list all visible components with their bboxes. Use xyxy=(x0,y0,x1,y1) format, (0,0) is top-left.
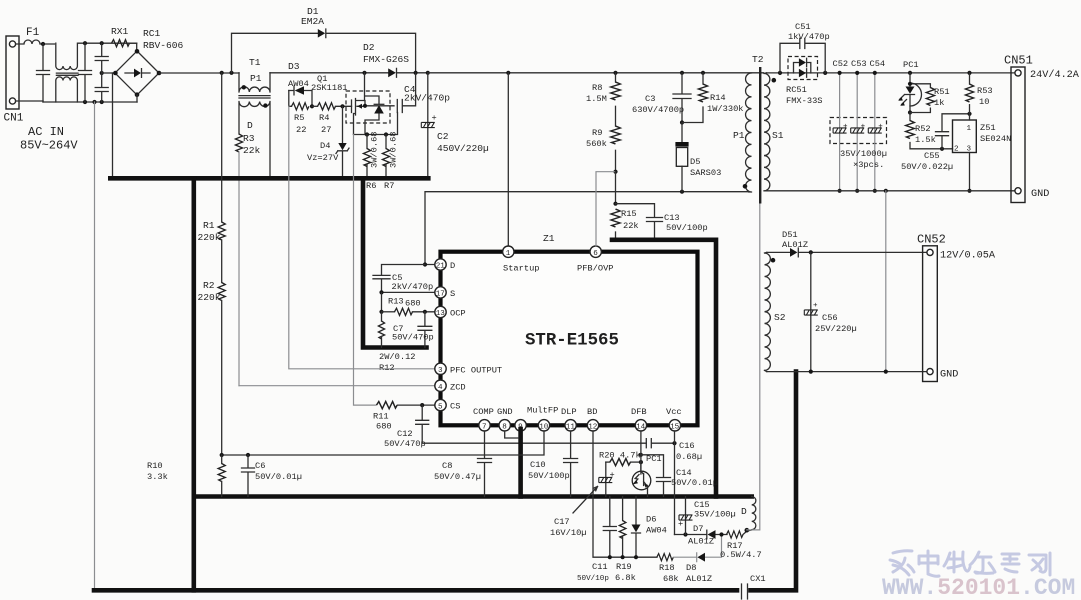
svg-text:6: 6 xyxy=(593,250,598,258)
svg-text:50V/10p: 50V/10p xyxy=(577,575,609,583)
svg-text:16V/10µ: 16V/10µ xyxy=(550,528,587,538)
pin 11 DLP xyxy=(561,407,577,432)
pin 4 ZCD xyxy=(435,380,466,392)
svg-text:1: 1 xyxy=(967,125,972,133)
signal GND bus (thick, lower) xyxy=(194,494,752,499)
svg-text:PC1: PC1 xyxy=(646,454,662,464)
wire aux winding to T2 core tie xyxy=(747,204,760,530)
svg-text:C54: C54 xyxy=(870,59,886,69)
Q1 drain vertical xyxy=(365,73,380,135)
svg-text:2: 2 xyxy=(954,146,959,154)
IC Z1 STR-E1565 xyxy=(441,252,698,426)
svg-text:50V/100p: 50V/100p xyxy=(528,471,570,481)
svg-text:50V/470p: 50V/470p xyxy=(384,439,426,449)
svg-text:11: 11 xyxy=(566,424,576,432)
svg-text:T1: T1 xyxy=(249,57,261,68)
svg-text:STR-E1565: STR-E1565 xyxy=(525,332,619,351)
svg-text:0.5W/4.7: 0.5W/4.7 xyxy=(720,550,762,560)
svg-text:17: 17 xyxy=(436,291,445,299)
svg-text:RBV-606: RBV-606 xyxy=(143,40,184,51)
svg-text:C11: C11 xyxy=(592,562,608,572)
svg-text:SE024N: SE024N xyxy=(980,134,1011,144)
common-mode choke L1 xyxy=(56,43,78,69)
svg-text:+: + xyxy=(610,470,615,480)
T1 P1 winding xyxy=(239,73,270,92)
svg-text:50V/470p: 50V/470p xyxy=(392,333,434,343)
pin 6 PFB/OVP xyxy=(577,246,614,274)
T1 D winding xyxy=(239,102,270,179)
svg-text:3: 3 xyxy=(438,367,443,375)
svg-text:22k: 22k xyxy=(623,221,639,231)
svg-text:C14: C14 xyxy=(676,468,692,478)
svg-text:+: + xyxy=(432,113,437,123)
svg-text:1kV/470p: 1kV/470p xyxy=(788,32,830,42)
svg-text:1k: 1k xyxy=(934,98,944,108)
pin 21 D xyxy=(435,259,455,271)
svg-text:CS: CS xyxy=(450,402,460,412)
svg-text:S1: S1 xyxy=(772,130,784,141)
wire R3 to ZCD column xyxy=(238,152,240,386)
svg-text:R8: R8 xyxy=(592,83,602,93)
svg-text:+: + xyxy=(813,302,818,310)
svg-text:D8: D8 xyxy=(686,563,696,573)
svg-text:560k: 560k xyxy=(586,139,607,149)
svg-text:P1: P1 xyxy=(250,73,262,84)
wire 12V GND rail xyxy=(767,371,927,373)
wire bridge mid to left vertex xyxy=(102,72,116,74)
pin 10 MultFP xyxy=(527,406,558,432)
svg-text:BD: BD xyxy=(587,407,597,417)
wire left vertex down to primary gnd bus xyxy=(112,73,114,178)
svg-text:FMX-G26S: FMX-G26S xyxy=(363,54,409,65)
wire BD pin 12 drop xyxy=(593,431,657,557)
svg-text:R53: R53 xyxy=(977,86,993,96)
T1 core xyxy=(239,96,270,98)
wire DFB pin 14 drop xyxy=(640,431,642,474)
svg-text:PC1: PC1 xyxy=(903,60,919,70)
pin 1 Startup xyxy=(503,246,540,274)
svg-text:50V/0.01µ: 50V/0.01µ xyxy=(671,478,718,488)
wire ZCD line xyxy=(239,385,435,387)
svg-text:C13: C13 xyxy=(664,213,680,223)
wire 24V rail xyxy=(767,72,1015,74)
svg-text:3W/0.68: 3W/0.68 xyxy=(370,132,380,169)
svg-text:R14: R14 xyxy=(710,93,726,103)
svg-text:R4: R4 xyxy=(319,113,329,123)
svg-text:EM2A: EM2A xyxy=(301,16,324,27)
svg-text:R7: R7 xyxy=(384,181,394,191)
svg-text:CN51: CN51 xyxy=(1004,54,1033,68)
svg-text:C6: C6 xyxy=(255,461,265,471)
svg-text:35V/1000µ: 35V/1000µ xyxy=(840,149,887,159)
thick vertical left gnd link xyxy=(192,178,197,590)
svg-text:680: 680 xyxy=(405,299,421,309)
svg-text:D6: D6 xyxy=(646,515,656,525)
capacitor C17 16V/10u electrolytic xyxy=(605,462,607,496)
pin 15 Vcc xyxy=(666,407,682,432)
svg-text:GND: GND xyxy=(940,370,958,381)
svg-text:MultFP: MultFP xyxy=(527,406,558,416)
capacitor X-cap 2 xyxy=(83,41,87,45)
wire CS line xyxy=(354,135,377,406)
svg-text:35V/100µ: 35V/100µ xyxy=(694,510,736,520)
svg-text:C8: C8 xyxy=(442,461,452,471)
svg-text:S: S xyxy=(450,289,455,299)
wire 24V GND rail xyxy=(767,190,1015,192)
svg-text:T2: T2 xyxy=(752,54,764,65)
pin 5 CS xyxy=(435,399,461,411)
pin 7 COMP xyxy=(473,407,494,432)
wire MultFP / divider line xyxy=(222,431,544,455)
svg-text:CN52: CN52 xyxy=(917,233,946,247)
svg-text:12: 12 xyxy=(588,424,598,432)
svg-text:R52: R52 xyxy=(915,124,931,134)
svg-text:CX1: CX1 xyxy=(750,574,766,584)
svg-text:×3pcs.: ×3pcs. xyxy=(853,160,884,170)
svg-text:AW04: AW04 xyxy=(288,79,309,89)
svg-text:50V/0.01µ: 50V/0.01µ xyxy=(255,472,302,482)
svg-text:WWW.520101.COM: WWW.520101.COM xyxy=(882,575,1075,600)
svg-text:C52: C52 xyxy=(833,59,849,69)
svg-text:AL01Z: AL01Z xyxy=(686,574,712,584)
svg-text:R1: R1 xyxy=(203,220,215,231)
svg-text:Z51: Z51 xyxy=(980,123,996,133)
svg-text:7: 7 xyxy=(482,424,487,432)
svg-text:ZCD: ZCD xyxy=(450,382,466,392)
svg-text:Vz=27V: Vz=27V xyxy=(307,153,339,163)
svg-text:680: 680 xyxy=(376,422,392,432)
svg-text:R15: R15 xyxy=(621,209,637,219)
svg-text:AW04: AW04 xyxy=(646,526,667,536)
svg-text:1: 1 xyxy=(506,250,511,258)
svg-text:Z1: Z1 xyxy=(543,233,555,244)
node: fuse output junction xyxy=(41,42,45,46)
svg-text:15: 15 xyxy=(670,424,680,432)
svg-text:22: 22 xyxy=(296,125,306,135)
svg-text:FMX-33S: FMX-33S xyxy=(786,96,823,106)
svg-text:24V/4.2A: 24V/4.2A xyxy=(1030,69,1080,81)
svg-text:C15: C15 xyxy=(694,500,710,510)
svg-text:RC51: RC51 xyxy=(786,85,807,95)
wire PFB feedback to pin 6 xyxy=(596,172,616,246)
svg-text:C2: C2 xyxy=(437,131,449,142)
svg-text:COMP: COMP xyxy=(473,407,494,417)
svg-text:25V/220µ: 25V/220µ xyxy=(815,324,857,334)
svg-text:GND: GND xyxy=(497,407,513,417)
primary GND bus (thick) xyxy=(110,176,428,181)
pin 3 PFC OUTPUT xyxy=(435,363,502,375)
svg-text:C17: C17 xyxy=(554,517,570,527)
svg-text:50V/0.47µ: 50V/0.47µ xyxy=(434,472,481,482)
wire AC return drop to far bottom rail xyxy=(92,100,96,104)
svg-text:1.5k: 1.5k xyxy=(915,135,936,145)
svg-text:630V/4700p: 630V/4700p xyxy=(632,105,684,115)
svg-text:21: 21 xyxy=(436,263,446,271)
svg-text:85V~264V: 85V~264V xyxy=(20,139,78,153)
svg-text:R6: R6 xyxy=(366,181,376,191)
svg-text:DLP: DLP xyxy=(561,407,577,417)
pin 14 DFB xyxy=(631,407,647,432)
svg-text:D5: D5 xyxy=(690,157,700,167)
svg-text:R18: R18 xyxy=(659,563,675,573)
svg-text:Vcc: Vcc xyxy=(666,407,682,417)
svg-text:C10: C10 xyxy=(530,460,546,470)
capacitor pair to bridge mid xyxy=(100,41,104,45)
wire pin 8 jog to GND bus xyxy=(505,431,519,438)
svg-text:10: 10 xyxy=(539,424,549,432)
svg-text:R12: R12 xyxy=(379,363,395,373)
svg-text:14: 14 xyxy=(636,424,646,432)
svg-text:+: + xyxy=(678,519,683,529)
bottom interconnect bus (thick) with CX1 xyxy=(94,588,737,593)
svg-text:D51: D51 xyxy=(782,230,798,240)
svg-text:RC1: RC1 xyxy=(143,28,161,39)
svg-text:2W/0.12: 2W/0.12 xyxy=(379,352,416,362)
svg-text:C56: C56 xyxy=(822,313,838,323)
svg-text:PFC OUTPUT: PFC OUTPUT xyxy=(450,365,502,375)
pin 12 BD xyxy=(587,407,599,432)
svg-text:D7: D7 xyxy=(693,524,703,534)
connector CN1 xyxy=(6,36,19,109)
thick PFB/OVP gnd bus xyxy=(612,240,716,497)
thick source-sense bus to R12 xyxy=(363,178,427,347)
svg-text:C53: C53 xyxy=(851,59,867,69)
svg-text:D: D xyxy=(247,120,253,131)
svg-text:8: 8 xyxy=(502,424,507,432)
svg-text:D: D xyxy=(741,506,747,517)
svg-text:F1: F1 xyxy=(26,27,40,39)
svg-text:S2: S2 xyxy=(774,312,786,323)
wire R9 to R15 node xyxy=(615,172,617,204)
svg-text:SARS03: SARS03 xyxy=(690,168,721,178)
svg-text:Startup: Startup xyxy=(503,264,540,274)
svg-text:GND: GND xyxy=(1031,189,1049,200)
wire HV rail T1 to D2 xyxy=(270,72,388,74)
pin 9 xyxy=(515,420,526,432)
svg-text:R10: R10 xyxy=(147,461,163,471)
resistor R7 3W/0.68 xyxy=(385,135,387,179)
svg-text:AL01Z: AL01Z xyxy=(782,240,808,250)
svg-text:+: + xyxy=(843,123,848,131)
svg-text:PFB/OVP: PFB/OVP xyxy=(577,264,614,274)
wire AC top line xyxy=(79,43,137,51)
svg-text:0.68µ: 0.68µ xyxy=(676,452,702,462)
wire bridge bottom vertex to AC bottom xyxy=(136,95,138,102)
wire startup line xyxy=(507,73,509,246)
svg-text:CN1: CN1 xyxy=(4,113,24,125)
svg-text:AL01Z: AL01Z xyxy=(688,537,714,547)
svg-text:D: D xyxy=(450,261,455,271)
svg-text:R13: R13 xyxy=(388,297,404,307)
svg-text:+: + xyxy=(861,123,866,131)
wire AC bottom line xyxy=(16,101,137,102)
svg-text:D2: D2 xyxy=(363,42,375,53)
svg-text:50V/0.022µ: 50V/0.022µ xyxy=(901,162,953,172)
svg-text:OCP: OCP xyxy=(450,309,466,319)
wire switching-node rail (pin D to T2 P1 bottom) xyxy=(425,192,749,265)
svg-text:D3: D3 xyxy=(288,61,300,72)
svg-text:DFB: DFB xyxy=(631,407,647,417)
svg-text:12V/0.05A: 12V/0.05A xyxy=(940,250,996,262)
svg-text:5: 5 xyxy=(438,403,443,411)
svg-text:1.5M: 1.5M xyxy=(586,94,607,104)
svg-text:R2: R2 xyxy=(203,280,215,291)
svg-text:AC IN: AC IN xyxy=(28,125,64,139)
resistor R6 3W/0.68 xyxy=(366,135,368,179)
thick pin 9 GND drop xyxy=(518,429,523,497)
pin 13 OCP xyxy=(435,306,466,318)
wire Q1 source rail xyxy=(354,113,398,135)
svg-text:27: 27 xyxy=(321,125,331,135)
svg-text:RX1: RX1 xyxy=(111,26,129,37)
svg-text:220k: 220k xyxy=(198,232,221,243)
wire Vcc pin 15 column xyxy=(674,431,676,535)
svg-text:4: 4 xyxy=(438,384,443,392)
svg-text:R19: R19 xyxy=(616,562,632,572)
svg-text:13: 13 xyxy=(436,310,446,318)
pin 8 GND xyxy=(497,407,513,432)
svg-text:2kV/470p: 2kV/470p xyxy=(392,282,434,292)
svg-text:10: 10 xyxy=(979,97,989,107)
svg-text:R9: R9 xyxy=(592,128,602,138)
svg-text:+: + xyxy=(878,123,883,131)
svg-text:D4: D4 xyxy=(320,141,330,151)
svg-text:R5: R5 xyxy=(294,113,304,123)
wire HV rail right of C2 xyxy=(428,72,764,74)
wire 24V gnd to 12V gnd link xyxy=(885,191,887,372)
svg-text:450V/220µ: 450V/220µ xyxy=(437,143,489,154)
svg-text:C51: C51 xyxy=(795,22,811,32)
wire PFC OUTPUT line to gate xyxy=(289,106,435,369)
svg-text:68k: 68k xyxy=(663,574,679,584)
svg-text:6.8k: 6.8k xyxy=(615,573,636,583)
svg-text:C12: C12 xyxy=(397,429,413,439)
capacitor across line (input X-cap 1) xyxy=(37,44,50,102)
svg-text:P1: P1 xyxy=(733,130,745,141)
svg-text:2SK1181: 2SK1181 xyxy=(311,83,348,93)
wire S pin link xyxy=(382,291,435,293)
wire HV rail (bridge + output) xyxy=(159,72,239,74)
svg-text:1W/330k: 1W/330k xyxy=(707,104,744,114)
svg-text:C16: C16 xyxy=(679,441,695,451)
svg-text:3W/0.68: 3W/0.68 xyxy=(389,132,399,169)
svg-text:R11: R11 xyxy=(373,412,389,422)
svg-text:3.3k: 3.3k xyxy=(147,472,168,482)
Q1 body diode xyxy=(374,105,384,114)
svg-text:C3: C3 xyxy=(645,94,655,104)
watermark chinese characters xyxy=(890,551,1050,577)
svg-text:R3: R3 xyxy=(243,133,255,144)
pin 17 S xyxy=(435,287,455,299)
svg-text:C55: C55 xyxy=(924,151,940,161)
svg-text:50V/100p: 50V/100p xyxy=(666,223,708,233)
svg-text:22k: 22k xyxy=(243,145,261,156)
